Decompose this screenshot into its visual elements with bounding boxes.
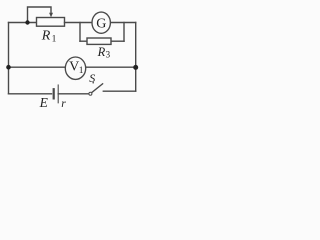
svg-text:E: E: [39, 95, 49, 110]
svg-text:R: R: [41, 28, 51, 43]
svg-text:S: S: [89, 71, 95, 85]
svg-text:r: r: [61, 98, 66, 110]
svg-text:R: R: [97, 45, 106, 59]
svg-text:1: 1: [79, 66, 84, 76]
svg-text:G: G: [96, 17, 106, 32]
svg-text:1: 1: [52, 35, 57, 45]
svg-text:3: 3: [106, 50, 111, 60]
